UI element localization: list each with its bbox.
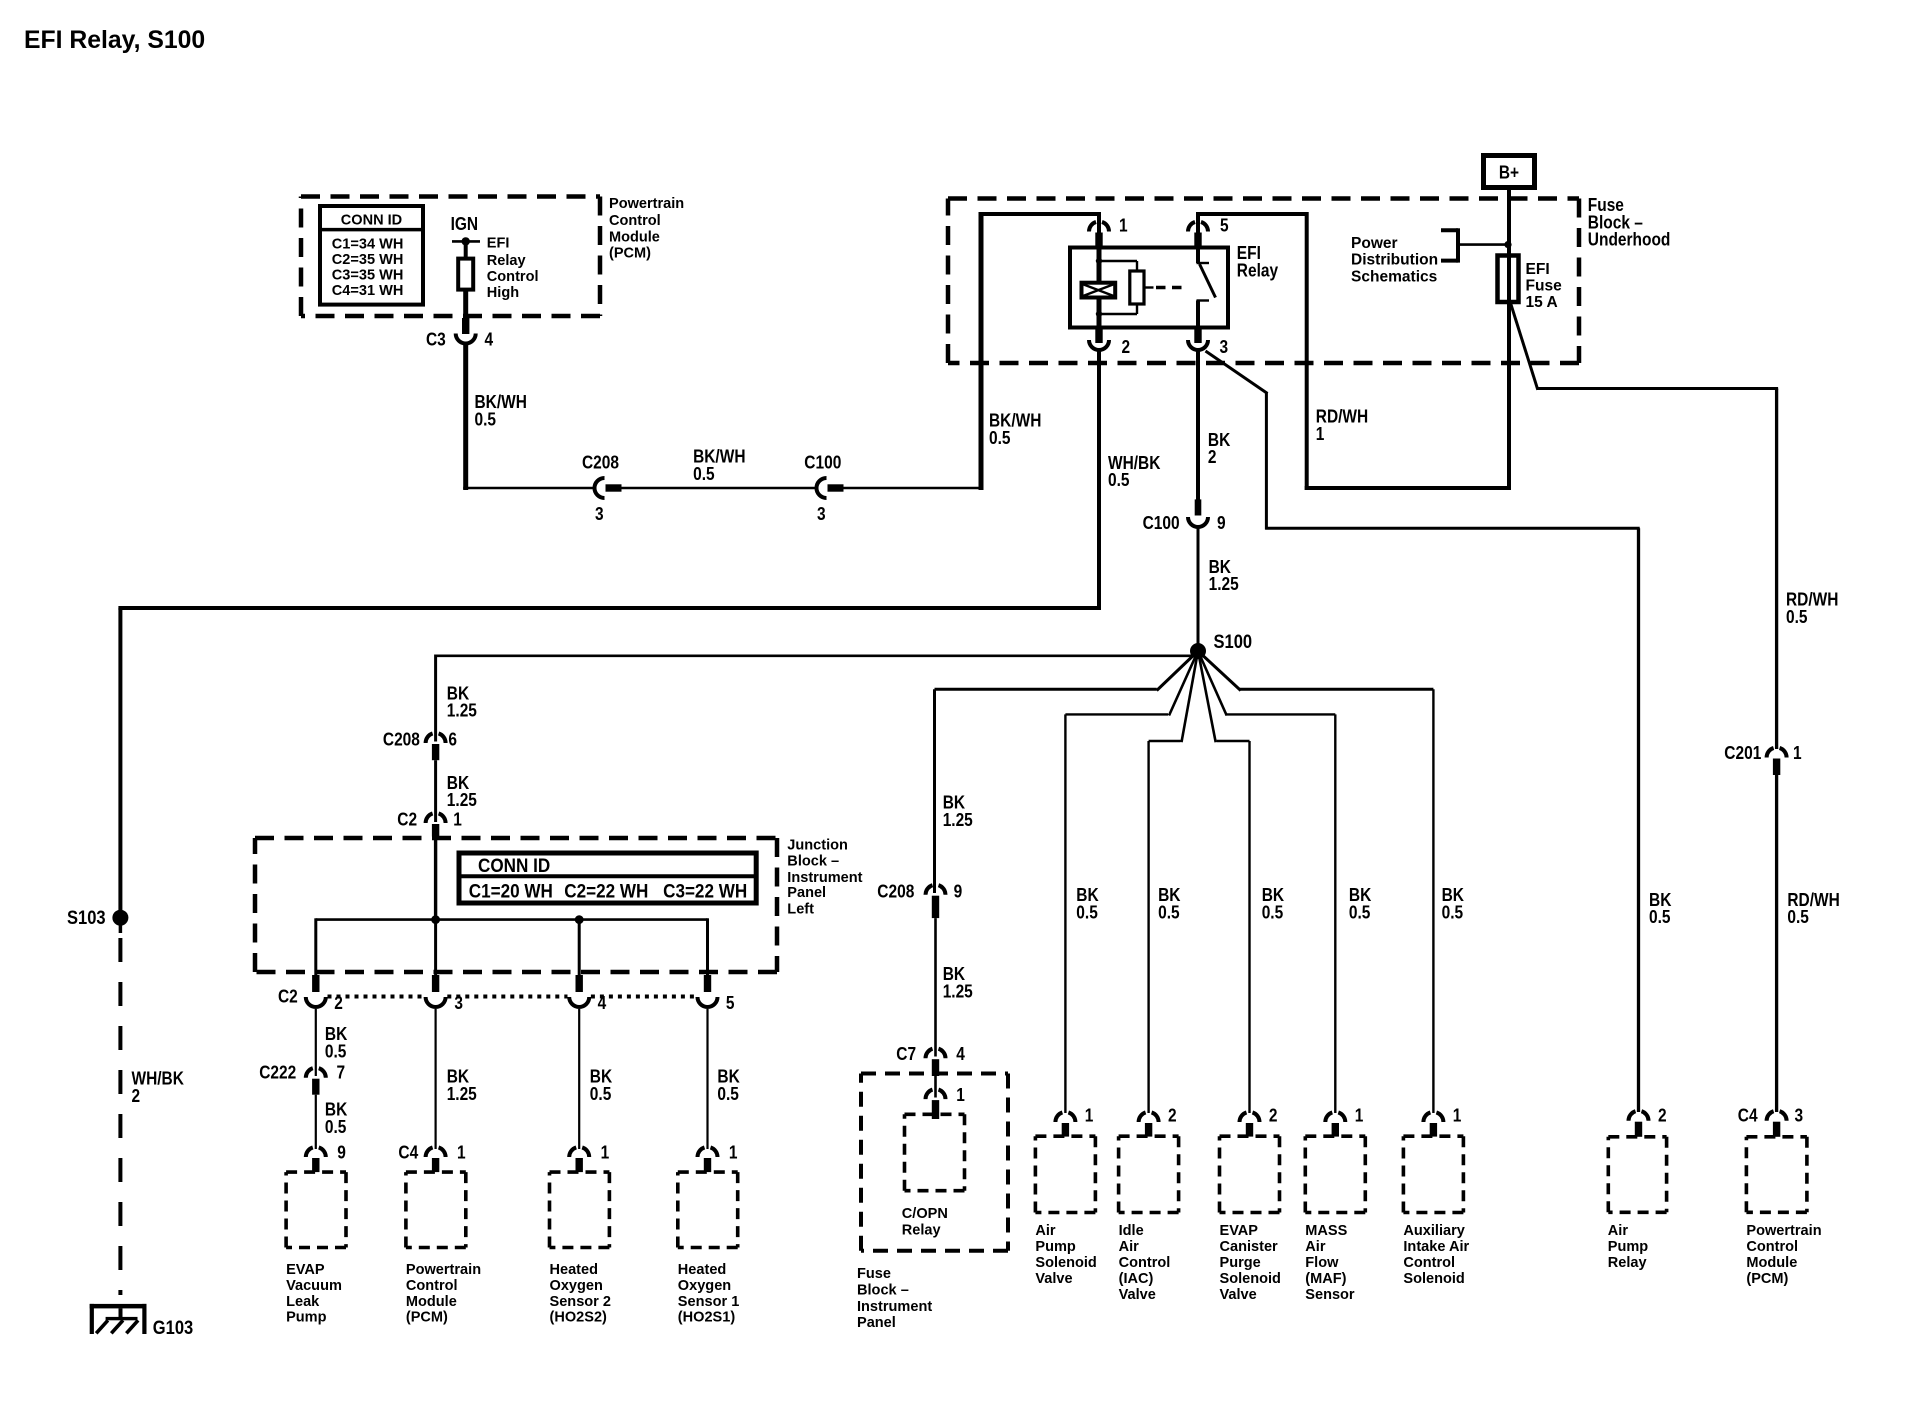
svg-text:1.25: 1.25 (447, 1084, 477, 1104)
component box MASS Air Flow (MAF) Sensor (1305, 1136, 1365, 1212)
wire coil to pin 2 (1097, 298, 1102, 328)
wire C3 to C208 (463, 487, 594, 490)
relay coil K1 (1082, 283, 1116, 298)
wire down to S103 (118, 608, 122, 911)
svg-text:C2=35 WH: C2=35 WH (332, 251, 404, 268)
svg-text:C208: C208 (582, 452, 619, 472)
svg-text:1: 1 (1793, 743, 1802, 763)
svg-text:Idle: Idle (1119, 1222, 1144, 1239)
wire junction to C2-4 (578, 920, 581, 976)
svg-text:4: 4 (485, 330, 494, 350)
wire RD/WH 0.5 down to C201 (1775, 389, 1778, 750)
svg-text:1.25: 1.25 (943, 810, 973, 830)
connector C208 pin 9 (926, 885, 933, 895)
svg-text:Module: Module (1746, 1254, 1797, 1271)
wire S100 to C/OPN branch diagonal (1157, 651, 1198, 691)
component box Air Pump Relay (1608, 1137, 1666, 1213)
svg-text:G103: G103 (153, 1318, 193, 1339)
svg-text:C4: C4 (398, 1143, 418, 1163)
connector C201 pin 1 (1767, 748, 1774, 758)
connector C2 pin 1 (426, 813, 433, 823)
stub relay pin 3 (1194, 328, 1201, 344)
svg-text:B+: B+ (1499, 163, 1519, 183)
connector Air Pump Relay pin 2 (1629, 1111, 1636, 1121)
ground hatch 2 (111, 1320, 123, 1333)
svg-text:Module: Module (406, 1293, 457, 1310)
svg-text:Control: Control (406, 1277, 458, 1294)
connector Auxiliary Intake Air Control Solenoid pin 1 (1423, 1112, 1430, 1122)
node coil bottom (1096, 311, 1102, 317)
stub relay pin 2 (1095, 328, 1102, 344)
ground hatch 3 (126, 1320, 138, 1333)
connector C208 pin 3 (595, 478, 605, 498)
wire BK/WH 0.5 C208 to C100 (622, 487, 817, 490)
node power distribution tap (1504, 241, 1511, 248)
coil sense branch bottom (1099, 313, 1137, 315)
svg-text:Pump: Pump (286, 1309, 326, 1326)
svg-text:2: 2 (1208, 447, 1217, 467)
svg-text:15 A: 15 A (1526, 294, 1559, 311)
component box Powertrain Control Module right (1746, 1137, 1807, 1213)
connector C2 row dotted link (328, 995, 425, 999)
svg-text:9: 9 (337, 1143, 346, 1163)
svg-text:Air: Air (1608, 1222, 1628, 1239)
svg-text:0.5: 0.5 (325, 1117, 347, 1137)
svg-text:C201: C201 (1724, 743, 1761, 763)
connector C222 pin 7 (306, 1068, 313, 1078)
node junction C2-4 (575, 915, 584, 924)
svg-text:Powertrain: Powertrain (1746, 1222, 1821, 1239)
svg-text:Left: Left (787, 901, 814, 918)
svg-text:(PCM): (PCM) (406, 1309, 448, 1326)
wire BK 1.25 to S100 (1197, 528, 1200, 653)
ground G103 (90, 1304, 147, 1309)
svg-text:7: 7 (337, 1063, 346, 1083)
svg-text:1: 1 (457, 1143, 466, 1163)
stub C2 pin 5 (704, 975, 711, 992)
wire S100 branch left long (436, 654, 1198, 657)
svg-text:C2: C2 (278, 987, 298, 1007)
connector Heated Oxygen Sensor 2 pin 1 (569, 1147, 576, 1157)
wire RD/WH 0.5 to PCM (1775, 775, 1778, 1112)
wire S100 to EVAP canister diagonal (1198, 651, 1216, 742)
svg-text:1: 1 (601, 1143, 610, 1163)
wire pin3 diagonal to air pump relay (1206, 351, 1268, 394)
svg-text:EFI: EFI (1526, 261, 1550, 278)
armature link solid (1144, 286, 1154, 288)
node IGN (462, 237, 470, 245)
svg-text:5: 5 (1220, 216, 1229, 236)
connector Idle Air Control (IAC) Valve pin 2 (1139, 1112, 1146, 1122)
PCM dashed box (301, 197, 600, 317)
svg-text:1: 1 (1316, 424, 1325, 444)
svg-text:Relay: Relay (1237, 261, 1278, 281)
svg-text:0.5: 0.5 (717, 1084, 739, 1104)
component box Air Pump Solenoid Valve (1035, 1136, 1095, 1212)
wire into pin 5 (1196, 212, 1200, 235)
wire BK 1.25 to C208-9 (933, 689, 936, 893)
svg-text:Heated: Heated (678, 1261, 727, 1278)
connector relay pin 3 (1188, 340, 1208, 350)
wire switch bottom (1196, 301, 1200, 328)
svg-text:Control: Control (1746, 1238, 1798, 1255)
wire down to C208-6 (434, 655, 437, 742)
svg-text:Control: Control (1403, 1254, 1455, 1271)
wire B+ to fuse (1507, 188, 1511, 257)
svg-text:0.5: 0.5 (989, 428, 1011, 448)
svg-text:S100: S100 (1214, 632, 1253, 653)
wire into pin 1 (1097, 212, 1101, 235)
svg-text:Pump: Pump (1035, 1238, 1075, 1255)
svg-text:EVAP: EVAP (1220, 1222, 1259, 1239)
wire BK 1.25 to C7 (934, 918, 937, 1056)
wire EVAP canister horizontal (1217, 740, 1250, 742)
svg-text:Auxiliary: Auxiliary (1403, 1222, 1465, 1239)
svg-text:0.5: 0.5 (1349, 903, 1371, 923)
svg-text:C208: C208 (383, 729, 420, 749)
svg-text:Control: Control (487, 268, 539, 285)
connector relay pin 5 (1188, 222, 1195, 232)
PCM CONN ID table (320, 206, 423, 305)
svg-text:0.5: 0.5 (693, 464, 715, 484)
component box Idle Air Control (IAC) Valve (1119, 1136, 1179, 1212)
svg-text:Block –: Block – (787, 853, 839, 870)
wire BK 0.5 to HO2S2 (578, 1009, 580, 1149)
svg-text:(PCM): (PCM) (609, 245, 651, 262)
svg-text:4: 4 (598, 993, 607, 1013)
svg-text:Instrument: Instrument (857, 1298, 932, 1315)
connector relay pin 2 (1089, 340, 1109, 350)
wire below S103 (119, 925, 123, 933)
connector C100 pin 9 (1188, 517, 1208, 527)
PCM CONN ID table divider (320, 228, 423, 232)
svg-text:3: 3 (1220, 337, 1229, 357)
component box Auxiliary Intake Air Control Solenoid (1403, 1136, 1463, 1212)
svg-text:Sensor: Sensor (1305, 1286, 1354, 1303)
switch blade (1200, 264, 1216, 298)
svg-text:1: 1 (729, 1143, 738, 1163)
stub C2 pin 3 (432, 975, 439, 992)
wire BK 1.25 to PCM C4-1 (435, 1009, 437, 1149)
wire into junction block (434, 837, 437, 922)
wire across to S103 column (118, 606, 1101, 610)
svg-text:(IAC): (IAC) (1119, 1270, 1154, 1287)
svg-text:Distribution: Distribution (1351, 252, 1438, 269)
wire to relay coil (1097, 248, 1102, 284)
connector EVAP Vacuum Leak Pump pin 9 (306, 1147, 313, 1157)
switch top contact (1197, 262, 1210, 264)
svg-text:Solenoid: Solenoid (1403, 1270, 1464, 1287)
svg-text:0.5: 0.5 (1262, 903, 1284, 923)
svg-text:C3=35 WH: C3=35 WH (332, 267, 404, 284)
wire down (1265, 393, 1268, 530)
wire resistor to C3 (463, 290, 468, 321)
svg-text:Heated: Heated (550, 1261, 599, 1278)
svg-text:(MAF): (MAF) (1305, 1270, 1346, 1287)
wire RD/WH 1 vertical (1305, 212, 1309, 490)
wire IGN to resistor (464, 241, 468, 260)
svg-text:Leak: Leak (286, 1293, 320, 1310)
wire air pump solenoid horizontal (1065, 713, 1168, 715)
svg-text:(PCM): (PCM) (1746, 1270, 1788, 1287)
component box EVAP Vacuum Leak Pump (286, 1172, 346, 1247)
svg-text:3: 3 (817, 504, 826, 524)
connector C2 pin 2 (306, 997, 326, 1007)
stub C2 pin 2 (312, 975, 319, 992)
svg-text:9: 9 (1217, 513, 1226, 533)
stub C100-9 (1195, 499, 1202, 515)
fuse EFI Fuse 15A (1498, 256, 1519, 303)
svg-text:2: 2 (1168, 1106, 1177, 1126)
stub C100-3 (828, 484, 844, 491)
stub C208-3 (606, 484, 622, 491)
junction bus bar (316, 918, 708, 921)
wire right to air pump relay column (1265, 527, 1640, 530)
svg-text:0.5: 0.5 (475, 409, 497, 429)
wire BK/WH 0.5 down from C3 (463, 344, 468, 490)
wire BK 1.25 to C2-1 (434, 760, 437, 822)
wire switch top (1196, 248, 1200, 264)
svg-text:EFI Relay, S100: EFI Relay, S100 (24, 26, 205, 54)
splice S103 (112, 910, 128, 926)
svg-text:Air: Air (1035, 1222, 1055, 1239)
svg-text:Relay: Relay (1608, 1254, 1647, 1271)
bracket power distribution schematics (1456, 228, 1460, 262)
wire C/OPN branch horizontal (935, 688, 1157, 691)
svg-text:3: 3 (454, 993, 463, 1013)
svg-text:C4=31 WH: C4=31 WH (332, 282, 404, 299)
svg-text:Canister: Canister (1220, 1238, 1278, 1255)
node junction C2-3 (431, 915, 440, 924)
svg-text:Oxygen: Oxygen (550, 1277, 603, 1294)
dashed wire to G103 (118, 938, 122, 1295)
svg-text:C7: C7 (896, 1044, 916, 1064)
svg-text:Solenoid: Solenoid (1220, 1270, 1281, 1287)
svg-text:Block –: Block – (857, 1281, 909, 1298)
svg-text:C222: C222 (259, 1063, 296, 1083)
connector C2 pin 3 (426, 997, 446, 1007)
svg-text:Relay: Relay (487, 252, 526, 269)
svg-text:Panel: Panel (787, 884, 826, 901)
relay internal resistor (1130, 271, 1144, 304)
wire BK 0.5 to C222 (315, 1009, 317, 1076)
svg-text:Relay: Relay (902, 1221, 941, 1238)
splice S100 (1190, 643, 1206, 659)
coil X stroke 2 (1083, 284, 1114, 296)
svg-text:C100: C100 (1143, 513, 1180, 533)
connector C/OPN relay pin 1 (926, 1090, 933, 1100)
svg-text:1.25: 1.25 (447, 790, 477, 810)
connector Air Pump Solenoid Valve pin 1 (1055, 1112, 1062, 1122)
svg-text:2: 2 (1658, 1106, 1667, 1126)
svg-text:3: 3 (595, 504, 604, 524)
wire BK 0.5 to air pump solenoid (1064, 714, 1066, 1113)
svg-text:Flow: Flow (1305, 1254, 1338, 1271)
svg-text:Panel: Panel (857, 1314, 896, 1331)
svg-text:1.25: 1.25 (943, 982, 973, 1002)
IGN node tick (452, 240, 480, 243)
wire junction to C2-3 (434, 920, 437, 976)
wire BK 0.5 to auxiliary solenoid (1432, 689, 1434, 1113)
svg-text:Sensor 2: Sensor 2 (550, 1293, 612, 1310)
svg-text:1: 1 (1453, 1106, 1462, 1126)
svg-text:1: 1 (1355, 1106, 1364, 1126)
svg-text:0.5: 0.5 (325, 1042, 347, 1062)
power feed B+ box (1484, 156, 1535, 188)
svg-text:MASS: MASS (1305, 1222, 1347, 1239)
wire S100 to MAF diagonal (1198, 651, 1227, 716)
svg-text:Fuse: Fuse (1526, 277, 1562, 294)
svg-text:2: 2 (1122, 337, 1131, 357)
svg-text:C/OPN: C/OPN (902, 1205, 948, 1222)
wire fuse bottom down (1507, 302, 1511, 490)
svg-text:3: 3 (1795, 1106, 1804, 1126)
svg-text:C1=34 WH: C1=34 WH (332, 235, 404, 252)
svg-text:Vacuum: Vacuum (286, 1277, 342, 1294)
svg-text:1: 1 (1119, 216, 1128, 236)
wire C100 to corner (844, 487, 984, 490)
connector C2 pin 4 (569, 997, 589, 1007)
wire RD/WH right (1537, 387, 1779, 390)
svg-text:Control: Control (609, 212, 661, 229)
svg-text:0.5: 0.5 (1076, 903, 1098, 923)
svg-text:C3=22 WH: C3=22 WH (663, 881, 747, 902)
svg-text:C208: C208 (877, 881, 914, 901)
coil sense branch top (1099, 260, 1137, 262)
svg-text:C4: C4 (1738, 1106, 1758, 1126)
svg-text:1.25: 1.25 (1209, 574, 1239, 594)
wire BK 0.5 to MAF (1334, 714, 1336, 1113)
wire fuse diagonal (1511, 303, 1538, 390)
svg-text:C3: C3 (426, 330, 446, 350)
svg-text:0.5: 0.5 (1108, 470, 1130, 490)
wire pin 5 right (1198, 212, 1307, 216)
svg-text:2: 2 (132, 1086, 141, 1106)
wire junction to C2-5 (706, 918, 709, 976)
wire to power distribution bracket (1460, 243, 1509, 246)
svg-text:4: 4 (956, 1044, 965, 1064)
svg-text:Junction: Junction (787, 837, 848, 854)
svg-text:1: 1 (956, 1085, 965, 1105)
ground hatch 1 (96, 1320, 108, 1333)
coil X stroke 1 (1083, 284, 1114, 296)
svg-text:C1=20 WH: C1=20 WH (469, 881, 553, 902)
component box C/OPN Relay (905, 1114, 965, 1190)
svg-text:Intake Air: Intake Air (1403, 1238, 1469, 1255)
connector C3 pin 4 (456, 334, 476, 344)
svg-text:0.5: 0.5 (590, 1084, 612, 1104)
svg-text:0.5: 0.5 (1786, 607, 1808, 627)
svg-text:Air: Air (1305, 1238, 1325, 1255)
connector relay pin 1 (1089, 222, 1096, 232)
svg-text:Purge: Purge (1220, 1254, 1261, 1271)
wire BK 0.5 to EVAP canister (1248, 741, 1250, 1113)
svg-text:S103: S103 (67, 908, 106, 929)
connector C100 pin 3 (817, 478, 827, 498)
connector EVAP Canister Purge Solenoid Valve pin 2 (1240, 1112, 1247, 1122)
connector Heated Oxygen Sensor 1 pin 1 (698, 1147, 705, 1157)
resistor EFI relay control driver (458, 259, 473, 290)
wire IAC horizontal (1149, 740, 1181, 742)
svg-text:2: 2 (1269, 1106, 1278, 1126)
svg-text:Module: Module (609, 228, 660, 245)
svg-text:5: 5 (726, 993, 735, 1013)
wire WH/BK 0.5 down from pin 2 (1097, 351, 1101, 611)
wire C7 to C/OPN relay (934, 1076, 937, 1098)
svg-text:Underhood: Underhood (1588, 230, 1671, 250)
component box EVAP Canister Purge Solenoid Valve (1220, 1136, 1280, 1212)
svg-text:1: 1 (453, 810, 462, 830)
component box Powertrain Control Module (PCM) bottom (406, 1172, 466, 1247)
svg-text:Oxygen: Oxygen (678, 1277, 731, 1294)
svg-text:6: 6 (448, 729, 457, 749)
svg-text:High: High (487, 284, 519, 301)
component box Heated Oxygen Sensor 1 (678, 1172, 738, 1247)
junction CONN ID table (459, 853, 756, 903)
wire S100 to auxiliary branch diagonal (1198, 651, 1241, 691)
svg-text:Solenoid: Solenoid (1035, 1254, 1096, 1271)
wire BK 2 from pin 3 (1196, 351, 1200, 501)
svg-text:(HO2S2): (HO2S2) (550, 1309, 607, 1326)
wire junction to C2-2 (314, 918, 317, 976)
switch bottom contact (1197, 299, 1210, 301)
svg-text:CONN ID: CONN ID (341, 211, 403, 228)
svg-text:Valve: Valve (1220, 1286, 1257, 1303)
Fuse Block - Underhood dashed box (948, 199, 1579, 364)
wire to relay pin 1 (979, 212, 1100, 216)
svg-text:CONN ID: CONN ID (478, 856, 550, 877)
node coil top (1096, 258, 1102, 264)
svg-text:2: 2 (334, 993, 343, 1013)
svg-text:IGN: IGN (451, 214, 479, 234)
svg-text:0.5: 0.5 (1649, 907, 1671, 927)
connector PCM C4 pin 3 (1767, 1111, 1774, 1121)
svg-text:Valve: Valve (1035, 1270, 1072, 1287)
connector C2 pin 5 (698, 997, 718, 1007)
armature link dashed (1156, 286, 1186, 290)
wire BK 0.5 to air pump relay (1637, 528, 1640, 1112)
wire BK 0.5 to IAC (1147, 741, 1149, 1113)
svg-text:EVAP: EVAP (286, 1261, 325, 1278)
svg-text:Air: Air (1119, 1238, 1139, 1255)
wire auxiliary branch horizontal (1240, 688, 1434, 691)
svg-text:1: 1 (1085, 1106, 1094, 1126)
Junction Block dashed box (255, 838, 777, 972)
svg-text:Schematics: Schematics (1351, 268, 1437, 285)
wire S100 to air pump solenoid diagonal (1169, 651, 1198, 716)
svg-text:Pump: Pump (1608, 1238, 1648, 1255)
connector C208 pin 6 (426, 733, 433, 743)
wire to fuse output (1305, 486, 1509, 490)
wire BK 0.5 to EVAP pump (315, 1095, 317, 1149)
svg-text:9: 9 (954, 881, 963, 901)
svg-text:Control: Control (1119, 1254, 1171, 1271)
svg-text:C2: C2 (397, 810, 417, 830)
svg-text:Valve: Valve (1119, 1286, 1156, 1303)
svg-text:Fuse: Fuse (857, 1265, 891, 1282)
wire MAF horizontal (1226, 713, 1336, 715)
svg-text:0.5: 0.5 (1787, 907, 1809, 927)
junction table divider (459, 874, 756, 878)
wire BK 0.5 to HO2S1 (706, 1009, 708, 1149)
svg-text:0.5: 0.5 (1442, 903, 1464, 923)
svg-text:Sensor 1: Sensor 1 (678, 1293, 740, 1310)
stub C2 pin 4 (576, 975, 583, 992)
component box Heated Oxygen Sensor 2 (550, 1172, 610, 1247)
svg-text:C2=22 WH: C2=22 WH (564, 881, 648, 902)
svg-text:C100: C100 (804, 452, 841, 472)
wire up to relay pin 1 level (979, 214, 984, 490)
